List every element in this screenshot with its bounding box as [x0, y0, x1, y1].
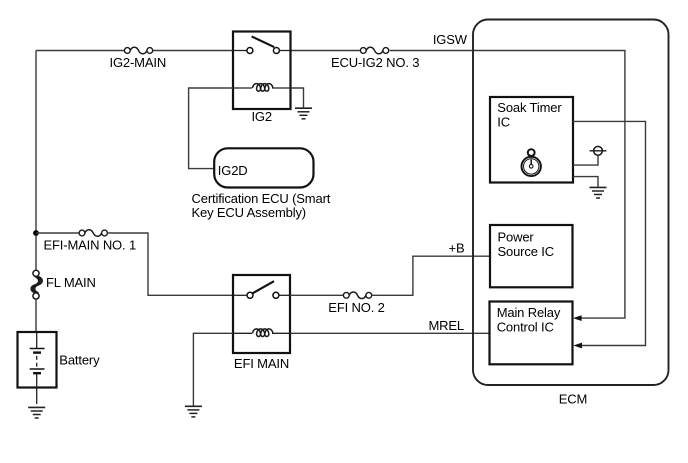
arrow Soak Timer output into Main Relay Control IC — [573, 343, 582, 349]
svg-text:IG2: IG2 — [251, 109, 272, 124]
wire top bus from left vertical to IG2 relay — [36, 50, 124, 52]
svg-text:MREL: MREL — [428, 318, 464, 333]
svg-text:Control IC: Control IC — [497, 320, 554, 335]
svg-text:EFI-MAIN NO. 1: EFI-MAIN NO. 1 — [44, 237, 137, 252]
battery — [18, 332, 57, 404]
connector box IG2D (Certification ECU) — [214, 148, 313, 187]
svg-text:EFI MAIN: EFI MAIN — [234, 356, 289, 371]
IC box Power Source IC — [490, 225, 573, 287]
wire fuse EFI-MAIN NO. 1 to EFI MAIN relay — [107, 233, 233, 295]
svg-text:IG2D: IG2D — [218, 163, 248, 178]
relay IG2 — [233, 32, 291, 110]
wire Soak Timer IC to ground — [573, 177, 598, 187]
wire left vertical bus — [35, 51, 37, 271]
svg-text:EFI NO. 2: EFI NO. 2 — [328, 300, 384, 315]
svg-text:Source IC: Source IC — [498, 244, 554, 259]
ground battery — [28, 407, 45, 418]
fuse ECU-IG2 NO. 3 — [360, 47, 388, 54]
ground IG2 relay — [295, 108, 312, 119]
arrow IGSW into Main Relay Control IC — [573, 315, 582, 321]
wire fuse IG2-MAIN to IG2 relay — [153, 50, 233, 52]
svg-text:Power: Power — [498, 229, 535, 244]
wire IG2 coil to ground — [291, 88, 304, 108]
svg-text:Soak Timer: Soak Timer — [497, 100, 562, 115]
wire MREL: EFI MAIN coil to Main Relay Control IC — [290, 332, 490, 334]
IC box Soak Timer IC — [490, 97, 573, 183]
wire EFI MAIN switch to fuse EFI NO. 2 — [290, 294, 343, 296]
svg-text:FL MAIN: FL MAIN — [46, 275, 96, 290]
svg-text:Certification ECU (Smart: Certification ECU (Smart — [192, 191, 331, 206]
svg-text:Key ECU Assembly): Key ECU Assembly) — [192, 205, 306, 220]
wire IG2 coil to IG2D — [189, 88, 233, 169]
icon stopwatch — [522, 149, 541, 176]
svg-text:+B: +B — [449, 240, 465, 255]
ground EFI MAIN — [185, 406, 202, 417]
svg-text:Battery: Battery — [59, 353, 100, 368]
node junction EFI-MAIN NO. 1 — [33, 230, 39, 236]
IC box Main Relay Control IC — [490, 302, 573, 365]
relay EFI MAIN — [233, 275, 290, 353]
wire EFI MAIN coil to ground — [193, 333, 233, 405]
fusible link FL MAIN — [31, 270, 42, 299]
fuse EFI NO. 2 — [343, 292, 371, 299]
ground Soak Timer — [590, 187, 607, 198]
svg-text:Main Relay: Main Relay — [497, 305, 561, 320]
wire IG2 relay to fuse ECU-IG2 NO. 3 — [291, 50, 361, 52]
wire FL MAIN to battery — [35, 298, 37, 332]
svg-text:IGSW: IGSW — [433, 32, 468, 47]
wire Soak Timer IC output to Main Relay Control IC — [573, 121, 646, 345]
fuse EFI-MAIN NO. 1 — [79, 230, 107, 237]
wire junction to fuse EFI-MAIN NO. 1 — [36, 232, 79, 234]
svg-text:ECU-IG2 NO. 3: ECU-IG2 NO. 3 — [331, 55, 419, 70]
svg-text:IC: IC — [497, 115, 510, 130]
wire Soak Timer IC to terminal — [573, 155, 598, 165]
svg-text:IG2-MAIN: IG2-MAIN — [110, 55, 167, 70]
ECM enclosure box — [473, 20, 669, 386]
fuse IG2-MAIN — [124, 47, 152, 54]
svg-text:ECM: ECM — [559, 392, 587, 407]
terminal circle node — [594, 146, 603, 155]
wire IGSW: fuse to ECM then down to arrow — [390, 51, 625, 319]
wire +B: fuse to Power Source IC — [372, 256, 490, 295]
